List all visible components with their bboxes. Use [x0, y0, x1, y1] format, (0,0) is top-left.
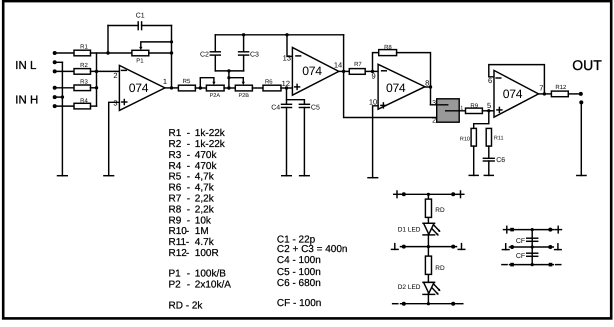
svg-text:C2 + C3 = 400n: C2 + C3 = 400n	[277, 244, 348, 255]
resistor R12	[551, 91, 568, 97]
op-amp U1C 074	[378, 64, 425, 109]
svg-text:C1: C1	[136, 13, 145, 20]
wire feedback right vertical	[171, 26, 173, 88]
node OUT ground terminal	[579, 100, 583, 104]
resistor R9	[466, 108, 483, 113]
wire input ground vertical	[61, 62, 63, 175]
wire pin3 to ground	[109, 102, 120, 175]
ground symbol right	[458, 248, 465, 250]
LED D1	[423, 222, 435, 224]
resistor R7	[349, 69, 365, 75]
svg-text:074: 074	[129, 81, 149, 95]
node OUT terminal	[579, 92, 583, 96]
wire terminal4 to R3	[55, 87, 74, 89]
node junction P2B wiper	[227, 76, 230, 79]
wire terminal1 to R1	[55, 52, 74, 54]
minus symbol left	[393, 303, 398, 305]
ground tick OUT	[577, 175, 586, 177]
capacitor C4	[286, 100, 288, 104]
svg-text:2: 2	[432, 117, 436, 124]
minus symbol CF left	[502, 264, 507, 266]
svg-text:3: 3	[113, 99, 117, 108]
svg-text:OUT: OUT	[572, 57, 602, 73]
wire terminal2 to ground rail	[55, 61, 63, 63]
wire R10 R11 branch	[474, 111, 489, 129]
node junction C rail center	[227, 69, 230, 72]
svg-text:IN L: IN L	[15, 60, 37, 72]
node junction input ground	[61, 95, 64, 98]
svg-text:R5: R5	[183, 78, 191, 85]
svg-text:R12: R12	[169, 248, 188, 259]
node junction U1A output feedback	[170, 86, 173, 89]
wire feedback top rail	[215, 34, 343, 36]
wire U1B output	[339, 70, 350, 72]
wire U1C output	[425, 86, 431, 88]
ground tick C6	[484, 174, 493, 176]
svg-text:C4 - 100n: C4 - 100n	[277, 255, 321, 266]
capacitor C3	[243, 55, 245, 71]
svg-text:D1 LED: D1 LED	[398, 226, 421, 233]
svg-text:1k-22k: 1k-22k	[195, 139, 226, 150]
svg-text:R5: R5	[169, 172, 182, 183]
svg-text:RD: RD	[435, 207, 445, 214]
input terminal 5	[53, 95, 57, 99]
ground tick pin3	[104, 175, 114, 177]
capacitor C2	[214, 55, 216, 71]
svg-text:R4: R4	[169, 161, 182, 172]
svg-text:D2 LED: D2 LED	[398, 284, 421, 291]
svg-text:C6: C6	[496, 157, 505, 164]
wire fader pin3	[431, 104, 448, 106]
plus symbol CF right	[555, 229, 562, 231]
svg-text:-: -	[187, 128, 190, 139]
capacitor CF upper	[527, 237, 538, 239]
resistor R11	[486, 128, 491, 146]
capacitor C5	[299, 103, 309, 105]
wire U1D feedback loop	[489, 65, 545, 94]
svg-text:R8: R8	[384, 44, 392, 51]
minus symbol right	[458, 303, 463, 305]
svg-text:R8: R8	[169, 204, 182, 215]
input terminal 3	[53, 69, 57, 73]
svg-text:R10: R10	[169, 226, 188, 237]
ground tick R10	[469, 174, 478, 176]
wire R11 to C6	[488, 146, 490, 158]
wire pin10 to ground	[373, 106, 379, 178]
svg-text:4.7k: 4.7k	[195, 237, 215, 248]
wire R3 output	[91, 87, 97, 89]
wire C1 left	[108, 25, 138, 27]
svg-text:RD - 2k: RD - 2k	[169, 300, 204, 311]
svg-text:-: -	[187, 204, 190, 215]
wire C2 C3 bottom rail	[215, 70, 243, 72]
svg-text:CF: CF	[516, 253, 525, 260]
svg-text:-: -	[187, 268, 190, 279]
ground tick input	[58, 175, 68, 177]
svg-text:5: 5	[487, 101, 491, 110]
wire C1 right	[142, 25, 172, 27]
op-amp U1A 074	[119, 65, 164, 110]
resistor R2	[74, 69, 91, 75]
LED indicator negative rail	[401, 303, 457, 305]
svg-text:C6 - 680n: C6 - 680n	[277, 278, 321, 289]
wire CF vertical	[531, 230, 533, 265]
capacitor C1	[137, 22, 139, 30]
svg-text:6: 6	[488, 76, 492, 85]
wire R6 to pin12	[281, 87, 292, 89]
svg-text:-: -	[186, 248, 189, 259]
ground symbol CF left	[502, 249, 509, 251]
potentiometer P2A	[206, 85, 224, 91]
svg-text:CF: CF	[516, 238, 525, 245]
svg-text:-: -	[187, 280, 190, 291]
svg-text:R2: R2	[169, 139, 182, 150]
CF decoupling positive rail	[510, 229, 554, 231]
input terminal 1	[53, 51, 57, 55]
svg-text:100k/B: 100k/B	[195, 268, 226, 279]
svg-text:C4: C4	[271, 105, 280, 112]
svg-text:12: 12	[282, 79, 290, 88]
node junction summing R3	[95, 86, 98, 89]
svg-text:10: 10	[369, 97, 377, 106]
svg-text:1k-22k: 1k-22k	[195, 128, 226, 139]
svg-text:4,7k: 4,7k	[195, 183, 215, 194]
resistor RD lower	[425, 256, 431, 274]
CF decoupling ground rail	[510, 246, 554, 248]
svg-text:IN H: IN H	[15, 95, 38, 107]
node junction P1 wiper	[170, 40, 173, 43]
wire feedback vertical and lower path	[344, 35, 448, 118]
svg-text:R1: R1	[169, 128, 182, 139]
wire R7 to pin9	[365, 70, 378, 72]
node junction pin5	[487, 109, 490, 112]
svg-text:9: 9	[372, 71, 376, 80]
svg-text:CF - 100n: CF - 100n	[277, 298, 321, 309]
svg-text:-: -	[187, 150, 190, 161]
wire OUT ground vertical	[580, 102, 582, 175]
op-amp U1B 074	[292, 48, 338, 96]
wire R12 to OUT	[568, 93, 581, 95]
svg-text:-: -	[186, 237, 189, 248]
svg-text:10k: 10k	[195, 215, 212, 226]
capacitor CF lower	[527, 252, 538, 254]
ground symbol CF right	[555, 249, 562, 251]
wire C1 branch vertical	[107, 26, 109, 54]
svg-text:RD: RD	[435, 265, 445, 272]
LED indicator positive rail	[401, 193, 457, 195]
wire terminal3 to R2	[55, 70, 74, 72]
svg-text:C3: C3	[250, 52, 259, 59]
resistor RD upper	[425, 199, 431, 217]
svg-text:R2: R2	[80, 62, 88, 69]
svg-text:2,2k: 2,2k	[195, 194, 215, 205]
svg-text:R3: R3	[169, 150, 182, 161]
svg-text:R11: R11	[169, 237, 187, 248]
svg-text:R11: R11	[494, 136, 504, 142]
ground symbol left	[392, 248, 399, 250]
svg-text:-: -	[187, 172, 190, 183]
svg-text:4,7k: 4,7k	[195, 172, 215, 183]
svg-text:14: 14	[334, 61, 342, 70]
input terminal 2	[53, 60, 57, 64]
svg-text:R7: R7	[169, 194, 182, 205]
resistor R6	[263, 85, 281, 91]
wire P1 wiper	[141, 42, 172, 48]
ground tick C4	[282, 175, 292, 177]
svg-text:C5 - 100n: C5 - 100n	[277, 267, 321, 278]
svg-text:074: 074	[302, 64, 322, 78]
svg-text:P1: P1	[169, 268, 182, 279]
fader module gray box	[437, 99, 460, 122]
svg-text:P2: P2	[169, 280, 182, 291]
wire LED chain vertical	[427, 194, 429, 303]
ground tick C5	[300, 175, 310, 177]
svg-text:-: -	[187, 194, 190, 205]
LED indicator ground rail	[401, 246, 457, 248]
node junction C1 branch	[106, 51, 109, 54]
node junction pin9	[371, 70, 374, 73]
svg-text:P2B: P2B	[238, 93, 249, 99]
wire R9 to pin5	[482, 110, 494, 112]
svg-text:074: 074	[503, 87, 523, 101]
input terminal 4	[53, 86, 57, 90]
node junction U1D output feedback	[543, 92, 546, 95]
svg-text:R6: R6	[169, 183, 182, 194]
wire terminal6 to R4	[55, 105, 74, 107]
wire pin13 branch	[287, 35, 292, 57]
wire U1A output	[165, 87, 179, 89]
svg-text:8: 8	[425, 79, 429, 88]
svg-text:2,2k: 2,2k	[195, 204, 215, 215]
CF decoupling negative rail	[510, 264, 554, 266]
svg-text:3: 3	[432, 100, 436, 107]
wire R5 to P2A	[195, 87, 206, 89]
wire P2A wiper	[200, 78, 214, 88]
svg-text:R9: R9	[470, 103, 478, 110]
wire fader pin1 to R9	[446, 110, 466, 112]
node junction U1C output	[429, 85, 432, 88]
svg-text:R12: R12	[555, 84, 567, 91]
wire R4 output	[91, 105, 97, 107]
svg-text:P2A: P2A	[210, 93, 221, 99]
svg-text:1M: 1M	[195, 226, 209, 237]
node junction summing R2	[95, 70, 98, 73]
svg-text:-: -	[187, 161, 190, 172]
input terminal 6	[53, 104, 57, 108]
svg-text:C5: C5	[311, 105, 320, 112]
resistor R3	[74, 85, 91, 91]
svg-text:100R: 100R	[195, 248, 219, 259]
wire U1D output	[539, 93, 552, 95]
resistor R8	[379, 50, 397, 56]
svg-text:-: -	[186, 226, 189, 237]
node junction U1B output	[342, 70, 345, 73]
svg-text:R1: R1	[80, 44, 88, 51]
svg-text:R6: R6	[265, 79, 273, 86]
ground tick pin10	[368, 177, 378, 179]
resistor R4	[74, 103, 91, 109]
svg-text:470k: 470k	[195, 161, 218, 172]
wire R8 to output vertical	[397, 53, 431, 105]
wire R8 feedback branch	[373, 53, 379, 72]
svg-text:-: -	[187, 215, 190, 226]
wire terminal5 to ground rail	[55, 96, 63, 98]
capacitor C6	[483, 157, 494, 159]
wire R2 output to pin2	[91, 70, 120, 72]
resistor R5	[178, 85, 195, 91]
LED D2	[423, 281, 435, 283]
svg-text:-: -	[187, 139, 190, 150]
wire P1 right to feedback	[149, 52, 172, 54]
parts list resistors	[169, 128, 232, 311]
node junction P1 feedback	[170, 51, 173, 54]
wire R1 output to P1	[91, 52, 132, 54]
node junction C3 top	[242, 33, 245, 36]
svg-text:2: 2	[113, 71, 117, 80]
node junction center tap	[227, 86, 230, 89]
svg-text:R9: R9	[169, 215, 182, 226]
svg-text:7: 7	[539, 84, 543, 93]
parts list capacitors	[277, 235, 348, 309]
svg-text:R3: R3	[80, 79, 88, 86]
svg-text:470k: 470k	[195, 150, 218, 161]
svg-text:-: -	[187, 183, 190, 194]
svg-text:R4: R4	[80, 98, 88, 105]
node junction pin13 top	[285, 33, 288, 36]
wire P2B wiper	[229, 78, 243, 83]
svg-text:13: 13	[283, 54, 291, 63]
wire center vertical C-tap	[228, 71, 230, 88]
wire summing node vertical	[96, 53, 98, 106]
minus symbol CF right	[556, 264, 561, 266]
plus symbol right	[457, 193, 464, 195]
resistor R10	[471, 128, 476, 146]
wire P2B to R6	[252, 87, 263, 89]
node junction pin12	[285, 86, 288, 89]
svg-text:R7: R7	[354, 61, 362, 68]
plus symbol left	[394, 193, 401, 195]
plus symbol CF left	[504, 229, 511, 231]
svg-text:1: 1	[460, 106, 463, 112]
wire R10 to ground	[473, 146, 475, 175]
wire C4 C5 branch	[287, 88, 305, 104]
wire P2A to P2B	[224, 87, 235, 89]
potentiometer P2B	[235, 85, 252, 91]
svg-text:074: 074	[386, 81, 406, 95]
svg-text:2x10k/A: 2x10k/A	[195, 280, 231, 291]
potentiometer P1	[132, 50, 149, 56]
svg-text:R10: R10	[460, 136, 470, 142]
node junction P2A wiper tap	[199, 86, 202, 89]
resistor R1	[74, 50, 91, 56]
svg-text:P1: P1	[136, 58, 144, 65]
svg-text:1: 1	[163, 77, 167, 86]
svg-text:C2: C2	[200, 52, 209, 59]
